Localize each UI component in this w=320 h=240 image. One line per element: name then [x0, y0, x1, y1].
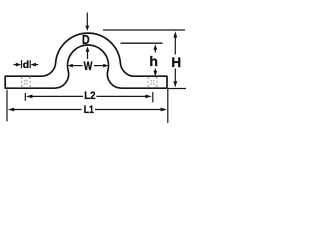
svg-text:D: D [82, 32, 90, 47]
dimension L1 line and arrows [8, 108, 167, 112]
svg-text:d: d [23, 59, 29, 71]
svg-text:L2: L2 [84, 90, 95, 102]
L1 right extension line [167, 89, 169, 123]
h extension line [121, 42, 163, 44]
dimension h arrows [153, 44, 157, 76]
clamp body outline [5, 33, 167, 88]
L2 right tick [152, 92, 154, 102]
svg-text:L1: L1 [84, 104, 94, 116]
dimension L2 line and arrows [26, 95, 152, 99]
H bottom extension line [168, 88, 186, 90]
H top extension line [103, 29, 185, 31]
L1 left extension line [6, 90, 8, 122]
L2 left tick [24, 93, 26, 101]
right hole hidden lines [148, 77, 157, 88]
svg-text:W: W [84, 59, 93, 73]
dimension H arrows [173, 31, 177, 87]
dimension d arrows and ticks [14, 60, 39, 68]
left hole hidden lines [22, 77, 31, 88]
svg-text:H: H [171, 55, 181, 70]
svg-text:h: h [149, 53, 158, 69]
dimension D lower arrow [86, 46, 90, 59]
dimension W arrows [67, 64, 108, 68]
dimension D top arrow [85, 13, 89, 32]
